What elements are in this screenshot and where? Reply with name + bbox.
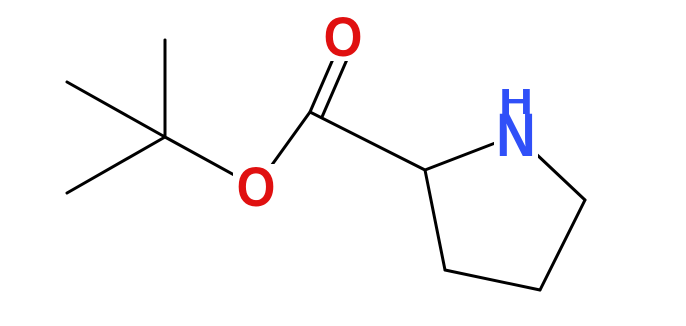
bond tert-butyl C to methyl lower-left bbox=[67, 137, 165, 193]
bond N to ring C5 bbox=[516, 135, 585, 200]
bond tert-butyl C to methyl upper-left bbox=[67, 82, 165, 137]
bond C=O carbonyl second line bbox=[322, 41, 355, 117]
bond carbonyl C to ring C2 bbox=[310, 112, 425, 170]
bond tert-butyl C to methyl up bbox=[164, 40, 167, 137]
bond ring C3 to C2 bbox=[425, 170, 445, 270]
svg-text:H: H bbox=[499, 81, 533, 122]
bond ring C5 to C4 bbox=[540, 200, 585, 290]
bond ester O to tert-butyl C bbox=[165, 137, 256, 187]
halo behind N-H bbox=[494, 80, 538, 160]
halo behind carbonyl O bbox=[320, 12, 366, 61]
bond C=O carbonyl main line bbox=[310, 36, 343, 112]
halo behind ester O bbox=[233, 164, 279, 211]
bond carbonyl C to ester O bbox=[256, 112, 310, 187]
bond ring C4 to C3 bbox=[445, 270, 540, 290]
svg-text:O: O bbox=[324, 6, 363, 68]
bond ring C2 to N bbox=[425, 135, 516, 170]
svg-text:O: O bbox=[237, 156, 276, 218]
